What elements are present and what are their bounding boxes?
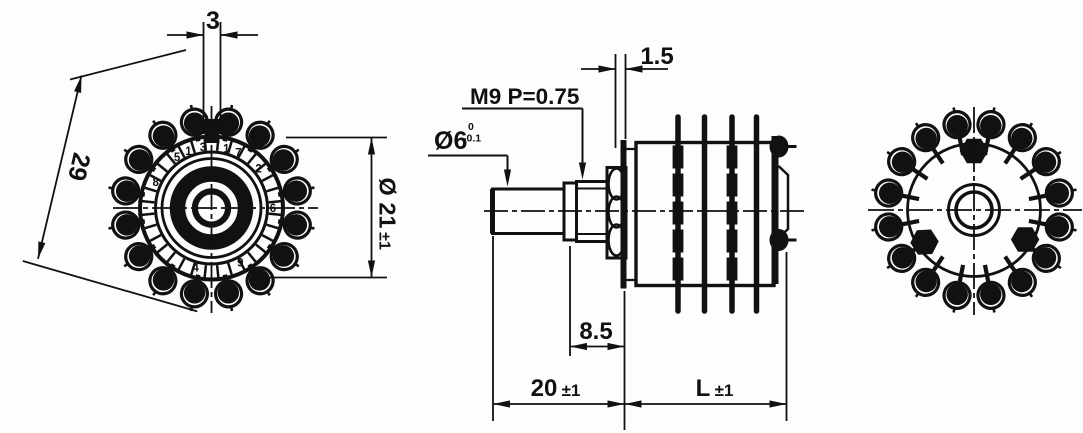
wafer circle r56 — [156, 152, 268, 264]
svg-text:4: 4 — [192, 262, 199, 274]
outer rim circle — [140, 137, 283, 280]
svg-text:9: 9 — [237, 257, 243, 269]
threaded bushing M9 — [577, 182, 608, 242]
switch body — [636, 143, 774, 286]
rivet top — [960, 139, 988, 164]
index tab at 12 oclock — [205, 119, 220, 143]
rear view lugs — [1026, 177, 1079, 212]
svg-text:±1: ±1 — [715, 381, 734, 400]
dimension 29 (diagonal across lugs) — [23, 50, 198, 311]
svg-text:±1: ±1 — [562, 381, 581, 400]
svg-text:1: 1 — [185, 146, 192, 158]
svg-text:1: 1 — [223, 143, 230, 155]
shaft — [493, 189, 565, 234]
bushing collar ring — [195, 191, 228, 224]
rear terminal top — [770, 136, 789, 158]
svg-text:8: 8 — [153, 177, 160, 189]
side view — [493, 117, 797, 311]
shaft flange washer — [564, 183, 577, 240]
rear cover circle — [908, 144, 1041, 277]
center bushing rings — [949, 185, 1000, 236]
plate step bottom — [627, 280, 637, 286]
rim spokes/teeth — [269, 201, 282, 202]
svg-text:5: 5 — [174, 152, 181, 164]
circle r49.5 — [162, 159, 261, 258]
svg-text:6: 6 — [270, 203, 276, 215]
svg-text:1.5: 1.5 — [640, 43, 673, 70]
svg-text:7: 7 — [235, 148, 241, 160]
hex nut — [607, 168, 626, 259]
svg-text:Ø 21: Ø 21 — [375, 178, 401, 229]
wafer terminal bars — [675, 117, 681, 311]
rear terminal bottom — [770, 229, 789, 251]
label dia 6 0/-0.1 — [428, 121, 511, 187]
svg-text:8.5: 8.5 — [579, 318, 612, 345]
svg-text:-0.1: -0.1 — [463, 133, 481, 145]
svg-text:0: 0 — [468, 121, 474, 133]
front view centerlines — [113, 207, 318, 209]
svg-text:3: 3 — [200, 142, 206, 154]
dimension 20 +/-1 and L +/-1 — [493, 236, 787, 430]
svg-text:2: 2 — [255, 163, 261, 175]
solder lug terminals (front view) — [276, 175, 317, 208]
rear view centerlines — [868, 209, 1082, 211]
svg-text:L: L — [696, 375, 711, 402]
rear view — [869, 105, 1079, 315]
svg-text:±1: ±1 — [376, 232, 393, 250]
dimension dia 21 +/-1 — [259, 138, 401, 278]
svg-text:3: 3 — [206, 7, 220, 35]
dimension 3 (tab width) — [167, 7, 258, 134]
dimension 1.5 (plate thickness) — [581, 43, 674, 148]
dark annulus (rotor hub) — [178, 174, 246, 242]
front mounting plate — [621, 140, 627, 289]
side view centerline — [484, 210, 806, 212]
svg-text:M9 P=0.75: M9 P=0.75 — [470, 84, 579, 109]
rear plate — [772, 136, 779, 284]
rear bearing bump — [779, 166, 789, 238]
dimension 8.5 — [570, 246, 625, 356]
front view rotary switch body — [106, 102, 317, 313]
label M9 P=0.75 — [462, 84, 586, 180]
svg-text:20: 20 — [531, 375, 558, 402]
plate step top — [627, 143, 637, 150]
